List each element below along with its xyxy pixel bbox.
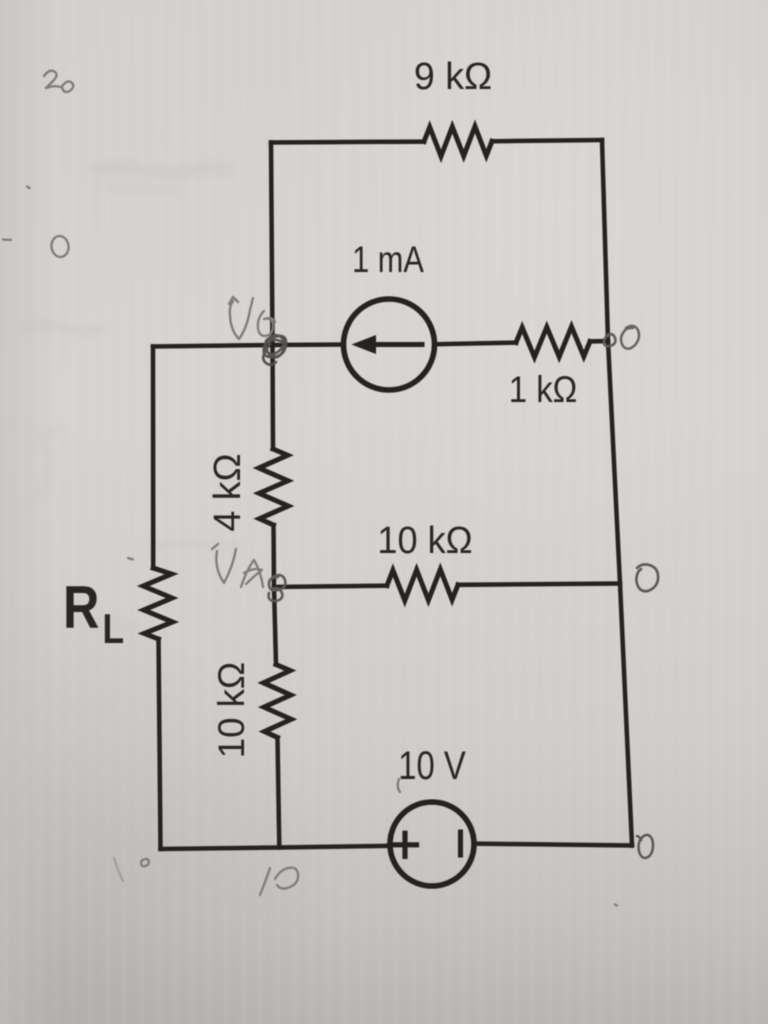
svg-text:1 mA: 1 mA bbox=[352, 239, 424, 280]
pencil dash left bbox=[3, 238, 11, 241]
svg-text:9 kΩ: 9 kΩ bbox=[414, 56, 492, 98]
label 10 kOhm vertical bbox=[211, 662, 252, 759]
pencil scribble at node UB bbox=[263, 335, 286, 365]
pencil dot bbox=[27, 187, 30, 189]
wire lower mid vertical (VA to 10k vert) bbox=[274, 587, 276, 665]
current source I1 arrow bbox=[352, 335, 423, 354]
voltage source V1 circle bbox=[390, 802, 474, 886]
pencil annotations bbox=[3, 71, 658, 906]
wire UB row left (RL top to node UB to source) bbox=[153, 345, 344, 347]
label 9 kOhm bbox=[414, 56, 492, 98]
wire 4k to node VA bbox=[271, 525, 276, 587]
voltage source minus bar bbox=[458, 832, 463, 855]
printed labels bbox=[63, 56, 577, 788]
resistor 10k (vertical) bbox=[263, 665, 291, 738]
label RL bbox=[63, 574, 124, 653]
wire VA row left lead bbox=[274, 586, 387, 587]
pencil 10 bottom bbox=[260, 868, 298, 895]
label 1 mA bbox=[352, 239, 424, 280]
svg-text:1 kΩ: 1 kΩ bbox=[509, 369, 578, 410]
pencil 0 bottom right bbox=[637, 835, 653, 858]
label 10 kOhm horizontal bbox=[377, 518, 472, 561]
wire right vertical bbox=[602, 140, 632, 846]
bleed-through smudges bbox=[0, 160, 240, 785]
wire bottom right segment bbox=[474, 844, 632, 846]
svg-text:10 kΩ: 10 kΩ bbox=[211, 662, 252, 759]
pencil node label UB bbox=[229, 297, 275, 339]
label 1 kOhm bbox=[509, 369, 578, 410]
voltage source plus sign bbox=[394, 833, 417, 856]
resistor RL (vertical) bbox=[143, 568, 172, 639]
resistor 9k (top) bbox=[424, 126, 492, 156]
resistor 1k bbox=[516, 327, 590, 358]
wire left-top vertical (node UB branch) bbox=[271, 143, 273, 346]
pencil blob at node VA bbox=[269, 575, 286, 601]
current source I1 circle bbox=[344, 299, 435, 390]
wire 1k to right vertical bbox=[590, 339, 608, 344]
svg-text:L: L bbox=[102, 606, 124, 653]
resistor 10k (horizontal) bbox=[387, 569, 458, 600]
svg-text:10 V: 10 V bbox=[398, 743, 466, 788]
svg-text:10 kΩ: 10 kΩ bbox=[377, 518, 472, 561]
pencil dash mid-left bbox=[128, 558, 133, 560]
wire 10k vert to bottom bbox=[278, 738, 280, 848]
label 10 V bbox=[398, 743, 466, 788]
svg-text:4 kΩ: 4 kΩ bbox=[207, 453, 249, 531]
wire top-right segment bbox=[492, 140, 602, 141]
wire RL to bottom-left corner bbox=[159, 639, 161, 849]
pencil 0 near 1k junction bbox=[604, 326, 639, 349]
pencil speck bottom right bbox=[615, 905, 617, 906]
wire 10k to right vertical bbox=[458, 584, 620, 585]
wire mid vertical upper (UB to 4k) bbox=[270, 345, 275, 449]
resistor 4k (vertical) bbox=[259, 449, 289, 525]
wire RL branch vertical upper bbox=[151, 347, 156, 569]
wire source to 1k bbox=[435, 343, 517, 345]
wire top-left segment bbox=[271, 139, 424, 144]
svg-text:R: R bbox=[63, 574, 99, 641]
wire bottom left segment bbox=[161, 846, 391, 849]
label 4 kOhm vertical bbox=[207, 453, 249, 531]
pencil faint stroke bottom-left bbox=[114, 858, 123, 881]
pencil O right middle bbox=[636, 564, 658, 591]
pencil 2o top-left bbox=[44, 71, 73, 92]
pencil node label VA bbox=[212, 544, 263, 587]
pencil stray stroke under 10V bbox=[398, 779, 400, 792]
ink: circuit drawing bbox=[143, 126, 632, 886]
pencil O left bbox=[50, 235, 70, 258]
pencil o bottom-left bbox=[141, 859, 149, 866]
